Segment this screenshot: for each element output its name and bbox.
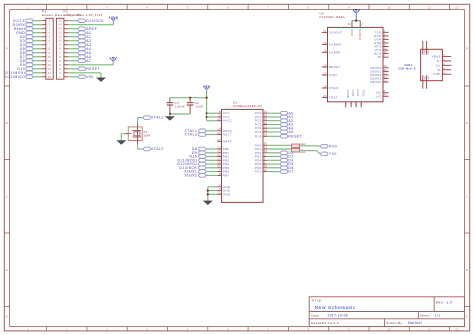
svg-text:11: 11: [264, 168, 268, 172]
svg-text:14: 14: [384, 75, 388, 79]
svg-text:3: 3: [384, 43, 386, 47]
wire U3 GND pins to ground: [207, 187, 218, 201]
svg-text:1: 1: [59, 75, 61, 79]
svg-text:8: 8: [308, 327, 310, 331]
svg-text:USBDP: USBDP: [329, 50, 341, 54]
svg-text:20: 20: [217, 138, 221, 142]
crystal X1 16M: [128, 127, 150, 140]
svg-text:5: 5: [219, 187, 221, 191]
svg-text:1/1: 1/1: [435, 314, 441, 318]
net flag GND (P1 pin 4) with wire: [16, 31, 42, 35]
wire +5V rail to caps: [170, 98, 207, 121]
svg-text:13: 13: [217, 149, 221, 153]
svg-text:VIN: VIN: [86, 75, 93, 79]
svg-text:27: 27: [323, 71, 327, 75]
svg-text:AGND: AGND: [346, 90, 350, 99]
svg-text:C: C: [466, 195, 468, 199]
svg-text:7: 7: [267, 6, 269, 10]
USB1 shield/mount pins: [423, 41, 429, 89]
net flag A1 (P2 pin 11) with wire: [68, 35, 91, 39]
net flag A7 (P2 pin 5) with wire: [68, 59, 91, 63]
svg-text:9: 9: [49, 51, 51, 55]
net flag AREF (P2 pin 13) with wire: [68, 27, 97, 31]
svg-text:7: 7: [59, 51, 61, 55]
svg-text:ADC7: ADC7: [223, 133, 232, 137]
svg-text:19: 19: [323, 63, 327, 67]
net flag D11/MOSI (P1 pin 14) with wire: [5, 71, 41, 75]
header P2: [56, 10, 102, 80]
net flag A2 (U3 PC2) with wire: [267, 119, 293, 123]
svg-text:GND: GND: [361, 90, 365, 97]
svg-text:15: 15: [217, 157, 221, 161]
svg-text:22: 22: [217, 131, 221, 135]
svg-text:28: 28: [323, 84, 327, 88]
ground (U3): [204, 201, 212, 205]
svg-text:GND: GND: [433, 72, 440, 76]
net flag D6 (P1 pin 9) with wire: [20, 51, 42, 55]
svg-text:3: 3: [59, 67, 61, 71]
net flag XTAL1 (crystal top) with wire: [138, 116, 164, 127]
net flag A3 (U3 PC3) with wire: [267, 123, 293, 127]
svg-text:A7: A7: [86, 59, 91, 63]
svg-text:12: 12: [455, 6, 459, 10]
svg-text:RX0: RX0: [329, 144, 337, 148]
svg-text:GND: GND: [223, 192, 230, 196]
svg-text:13: 13: [48, 67, 52, 71]
net flag D3 (P1 pin 6) with wire: [20, 39, 42, 43]
svg-text:2: 2: [49, 23, 51, 27]
U2 left pins with numbers and names: [322, 29, 342, 100]
svg-text:14: 14: [48, 71, 52, 75]
net flag Reset (P1 pin 3) with wire: [14, 27, 42, 31]
svg-text:15: 15: [58, 19, 62, 23]
svg-text:16: 16: [323, 41, 327, 45]
USB1 right pins with numbers and names: [431, 53, 451, 76]
svg-text:6: 6: [59, 55, 61, 59]
svg-text:26: 26: [264, 121, 268, 125]
net flag D11/MOSI (U3 PB3) with wire: [178, 158, 218, 162]
net flag D12/MISO (P1 pin 15) with wire: [5, 75, 42, 79]
svg-text:+5V: +5V: [203, 85, 211, 89]
net flag D7 (U3 PD7) with wire: [267, 170, 294, 174]
svg-text:FT232RL-REEL: FT232RL-REEL: [320, 15, 346, 19]
svg-text:4: 4: [49, 31, 51, 35]
svg-text:12: 12: [48, 63, 52, 67]
svg-text:XtalX2: XtalX2: [184, 174, 197, 178]
svg-text:3: 3: [106, 6, 108, 10]
svg-text:10: 10: [58, 39, 62, 43]
svg-text:15: 15: [48, 75, 52, 79]
svg-text:27: 27: [264, 125, 268, 129]
svg-text:28: 28: [264, 128, 268, 132]
svg-text:3: 3: [443, 62, 445, 66]
resistor R1 1k (PD0 to RX0): [267, 143, 305, 148]
svg-text:8: 8: [49, 47, 51, 51]
net flag A1 (U3 PC1) with wire: [267, 115, 293, 119]
svg-text:1.0: 1.0: [447, 300, 453, 304]
wire caps bottom rail: [169, 113, 190, 115]
svg-text:4: 4: [361, 22, 363, 26]
net flag A2 (P2 pin 10) with wire: [68, 39, 91, 43]
svg-text:PB7: PB7: [223, 173, 230, 177]
power flag +5V (U3 supply): [203, 85, 211, 98]
svg-text:D13/SCK: D13/SCK: [86, 19, 104, 23]
net flag D12/MISO (U3 PB4) with wire: [177, 162, 217, 166]
svg-text:25: 25: [264, 117, 268, 121]
net flag RESET (U3 PC6) with wire: [267, 134, 302, 138]
svg-text:6: 6: [227, 327, 229, 331]
net flag D9 (U3 PB1) with wire: [192, 151, 217, 155]
svg-text:1: 1: [27, 6, 29, 10]
svg-text:1: 1: [443, 53, 445, 57]
svg-text:26: 26: [323, 94, 327, 98]
svg-text:2: 2: [264, 157, 266, 161]
svg-text:A: A: [466, 46, 468, 50]
power flag +5V (U2 supply) with wires: [348, 8, 364, 27]
svg-text:24: 24: [384, 93, 388, 97]
svg-text:6: 6: [49, 39, 51, 43]
power flag +3V3 (P2 pin 14) with wire: [68, 16, 118, 25]
net flag A6 (P2 pin 6) with wire: [68, 55, 91, 59]
power flag +5V (P2 pin 4) with wire: [68, 56, 117, 64]
svg-text:SH1: SH1: [423, 76, 425, 80]
svg-text:8: 8: [59, 47, 61, 51]
svg-text:Drawn By:: Drawn By:: [386, 321, 403, 325]
net flag TX0 with wire: [300, 150, 337, 156]
capacitor C3 100nF: [167, 98, 186, 114]
net flag XTAL1 (U3 XTAL1) with wire: [185, 129, 218, 133]
svg-text:4: 4: [59, 63, 61, 67]
U3 left pins with numbers and names: [217, 110, 232, 197]
svg-text:8: 8: [384, 89, 386, 93]
svg-text:11: 11: [384, 47, 388, 51]
svg-text:3V3OUT: 3V3OUT: [329, 30, 342, 34]
svg-text:10: 10: [387, 6, 391, 10]
svg-text:VBUS: VBUS: [431, 54, 440, 58]
svg-text:XTAL1: XTAL1: [151, 116, 164, 120]
svg-text:6: 6: [219, 113, 221, 117]
svg-text:AREF: AREF: [223, 140, 232, 144]
svg-text:12: 12: [58, 31, 62, 35]
net flag A5 (U3 PC5) with wire: [267, 130, 293, 134]
junction dots on +5V rail: [189, 97, 208, 119]
capacitor C2 10uF: [187, 98, 204, 114]
net flag D5 (P1 pin 8) with wire: [20, 47, 42, 51]
svg-text:3: 3: [106, 327, 108, 331]
net flag D8 (U3 PB0) with wire: [192, 147, 217, 151]
svg-text:10: 10: [387, 327, 391, 331]
svg-text:23: 23: [264, 110, 268, 114]
net flag D8 (P1 pin 11) with wire: [20, 59, 42, 63]
net flag D9 (P1 pin 12) with wire: [20, 63, 42, 67]
U2 top pin names VCC VCCIO: [350, 29, 362, 40]
svg-text:6: 6: [227, 6, 229, 10]
connector USB1 USB-Mini-S: [398, 49, 443, 80]
net flag A4 (U3 PC4) with wire: [267, 126, 293, 130]
svg-text:2: 2: [384, 36, 386, 40]
svg-text:5: 5: [187, 327, 189, 331]
net flag XtalX2 (U3 PB7) with wire: [184, 174, 217, 178]
svg-text:14: 14: [58, 23, 62, 27]
svg-text:3: 3: [219, 183, 221, 187]
svg-text:TITLE:: TITLE:: [311, 299, 322, 303]
svg-text:10: 10: [48, 55, 52, 59]
svg-text:D12/MISO: D12/MISO: [5, 75, 25, 79]
svg-text:6: 6: [384, 54, 386, 58]
svg-text:MNT: MNT: [423, 51, 425, 56]
svg-text:11: 11: [428, 6, 432, 10]
svg-text:10uF: 10uF: [196, 105, 204, 109]
svg-text:5: 5: [59, 59, 61, 63]
svg-text:MNT: MNT: [427, 51, 429, 56]
resistor R2 1k (PD1 to TX0): [267, 148, 305, 154]
net flag D1/TX (P1 pin 1) with wire: [13, 19, 42, 23]
svg-text:+3V3: +3V3: [109, 16, 119, 20]
svg-text:E: E: [6, 315, 8, 319]
svg-text:NC: NC: [377, 94, 382, 98]
svg-text:Date:: Date:: [311, 314, 320, 318]
svg-text:18: 18: [217, 117, 221, 121]
svg-text:5: 5: [384, 32, 386, 36]
svg-text:7: 7: [219, 168, 221, 172]
svg-text:11: 11: [58, 35, 62, 39]
net flag D10 (P1 pin 13) with wire: [17, 67, 41, 71]
ground (caps): [166, 114, 174, 120]
svg-text:9: 9: [348, 327, 350, 331]
svg-text:D7: D7: [288, 170, 293, 174]
svg-text:9: 9: [264, 161, 266, 165]
svg-text:CBUS4: CBUS4: [370, 80, 381, 84]
svg-text:Header-Male-2.54_1x15: Header-Male-2.54_1x15: [64, 13, 103, 17]
svg-text:18: 18: [355, 103, 357, 107]
U3 right pins with numbers and names: [255, 110, 268, 174]
svg-text:D-: D-: [437, 59, 441, 63]
net flag D13/SCK (U3 PB5) with wire: [179, 166, 217, 170]
svg-text:12: 12: [384, 78, 388, 82]
svg-text:VCC: VCC: [350, 29, 354, 36]
svg-text:GND: GND: [351, 90, 355, 97]
svg-text:E: E: [466, 315, 468, 319]
svg-text:RESET: RESET: [288, 134, 302, 138]
svg-text:11: 11: [428, 327, 432, 331]
svg-text:10: 10: [264, 164, 268, 168]
svg-text:D+: D+: [436, 63, 440, 67]
svg-text:2017-10-08: 2017-10-08: [328, 314, 349, 318]
svg-text:9: 9: [59, 43, 61, 47]
net flag RX0 with wire: [300, 144, 338, 148]
svg-text:100nF: 100nF: [175, 105, 185, 109]
net flag D6 (U3 PD6) with wire: [267, 166, 294, 170]
svg-text:RESET: RESET: [86, 67, 100, 71]
svg-text:B: B: [6, 121, 8, 125]
svg-text:31: 31: [264, 145, 268, 149]
svg-text:USBDM: USBDM: [329, 42, 341, 46]
svg-text:4: 4: [146, 6, 148, 10]
svg-text:XTAL2: XTAL2: [185, 133, 198, 137]
svg-text:GND: GND: [356, 90, 360, 97]
svg-text:SH2: SH2: [427, 76, 429, 80]
svg-text:OSCI: OSCI: [329, 73, 337, 77]
svg-text:9: 9: [348, 6, 350, 10]
svg-text:17: 17: [323, 29, 327, 33]
svg-text:5: 5: [443, 71, 445, 75]
svg-text:1: 1: [27, 327, 29, 331]
svg-text:PD7: PD7: [255, 170, 262, 174]
svg-text:4: 4: [219, 110, 221, 114]
net flag RESET (P2 pin 3) with wire: [68, 67, 100, 71]
svg-text:EasyEDA V4.9.3: EasyEDA V4.9.3: [311, 321, 339, 325]
svg-text:2: 2: [66, 327, 68, 331]
svg-text:5: 5: [49, 35, 51, 39]
net flag D5 (U3 PD5) with wire: [267, 162, 294, 166]
net flag D2 (U3 PD2) with wire: [267, 151, 294, 155]
svg-text:15: 15: [323, 49, 327, 53]
svg-text:16M: 16M: [144, 133, 151, 137]
net flag A0 (P2 pin 12) with wire: [68, 31, 91, 35]
svg-text:17: 17: [217, 164, 221, 168]
svg-text:2: 2: [443, 57, 445, 61]
svg-text:7: 7: [267, 327, 269, 331]
svg-text:ATMEGA328P-AU: ATMEGA328P-AU: [233, 104, 263, 108]
svg-text:1: 1: [49, 19, 51, 23]
svg-text:D: D: [6, 268, 8, 272]
svg-text:13: 13: [58, 27, 62, 31]
net flag XtalX1 (U3 PB6) with wire: [184, 170, 217, 174]
wires +5V to U3 VCC/AVCC pins: [207, 113, 218, 121]
svg-text:REV:: REV:: [436, 300, 444, 304]
svg-text:2: 2: [59, 71, 61, 75]
net flag A4 (P2 pin 8) with wire: [68, 47, 91, 51]
svg-text:A: A: [6, 46, 8, 50]
net flag XTAL2 (crystal bottom) with wire: [138, 140, 164, 151]
net flag D2 (P1 pin 5) with wire: [20, 35, 42, 39]
svg-text:20: 20: [348, 22, 352, 26]
net flag D10 (U3 PB2) with wire: [189, 155, 217, 159]
svg-text:29: 29: [264, 133, 268, 137]
net flag XTAL2 (U3 XTAL2) with wire: [185, 133, 218, 137]
svg-text:Sheet:: Sheet:: [420, 314, 431, 318]
net flag D0/RX (P1 pin 2) with wire: [13, 23, 42, 27]
IC U3 ATMEGA328P-AU: [222, 100, 264, 202]
svg-text:1kΩ: 1kΩ: [300, 151, 306, 154]
svg-text:RI: RI: [378, 55, 382, 59]
svg-text:8: 8: [308, 6, 310, 10]
svg-text:32: 32: [264, 149, 268, 153]
svg-text:21: 21: [360, 103, 362, 107]
net flag A5 (P2 pin 7) with wire: [68, 51, 91, 55]
net flag D13/SCK (P2 pin 15) with wire: [68, 19, 104, 23]
svg-text:TX0: TX0: [329, 152, 337, 156]
svg-text:TEST: TEST: [329, 96, 338, 100]
svg-text:B: B: [466, 121, 468, 125]
net flag A0 (U3 PC0) with wire: [267, 111, 293, 115]
svg-text:21: 21: [217, 191, 221, 195]
svg-text:OSCO: OSCO: [329, 86, 339, 90]
net flag A3 (P2 pin 9) with wire: [68, 43, 91, 47]
svg-text:8: 8: [219, 172, 221, 176]
svg-text:23: 23: [384, 64, 388, 68]
svg-text:3: 3: [49, 27, 51, 31]
net flag D4 (U3 PD4) with wire: [267, 158, 294, 162]
net flag D7 (P1 pin 10) with wire: [20, 55, 42, 59]
ground (crystal case) with wire: [117, 134, 128, 145]
svg-text:MartinH: MartinH: [408, 321, 422, 325]
svg-text:12: 12: [455, 327, 459, 331]
IC U2 FT232RL-REEL: [320, 12, 384, 102]
header P1: [42, 10, 81, 80]
svg-text:XTAL2: XTAL2: [151, 147, 164, 151]
svg-text:22: 22: [384, 68, 388, 72]
svg-text:11: 11: [48, 59, 52, 63]
svg-text:USB-Mini-S: USB-Mini-S: [398, 67, 416, 71]
svg-text:+5V: +5V: [109, 56, 117, 60]
svg-text:+5V: +5V: [352, 8, 360, 12]
svg-text:5: 5: [187, 6, 189, 10]
U2 right pins with numbers and names: [370, 29, 389, 99]
svg-text:7: 7: [49, 43, 51, 47]
svg-text:1: 1: [264, 153, 266, 157]
svg-text:9: 9: [384, 39, 386, 43]
ground (P2 pin 2) with wire: [68, 73, 105, 82]
svg-text:16: 16: [217, 161, 221, 165]
svg-text:ID: ID: [437, 68, 441, 72]
svg-text:New Schematic: New Schematic: [315, 305, 356, 311]
title block: [309, 297, 464, 327]
svg-text:10: 10: [384, 50, 388, 54]
net flag D4 (P1 pin 7) with wire: [20, 43, 42, 47]
svg-text:PC6: PC6: [255, 134, 262, 138]
svg-text:30: 30: [264, 142, 268, 146]
svg-text:4: 4: [146, 327, 148, 331]
U2 bottom pins with numbers and names: [344, 90, 365, 108]
svg-text:VCCIO: VCCIO: [358, 29, 362, 40]
svg-text:19: 19: [217, 127, 221, 131]
net flag D3 (U3 PD3) with wire: [267, 155, 294, 159]
svg-text:RESET: RESET: [329, 65, 340, 69]
svg-text:1: 1: [384, 29, 386, 33]
svg-text:4: 4: [443, 66, 445, 70]
svg-text:13: 13: [384, 71, 388, 75]
net flag VIN (P2 pin 1) with wire: [68, 75, 93, 79]
svg-text:25: 25: [344, 103, 346, 107]
svg-text:D: D: [466, 268, 468, 272]
svg-text:AVCC: AVCC: [223, 119, 232, 123]
svg-text:14: 14: [217, 153, 221, 157]
svg-text:24: 24: [264, 113, 268, 117]
svg-text:12: 12: [217, 145, 221, 149]
svg-text:C: C: [6, 195, 8, 199]
